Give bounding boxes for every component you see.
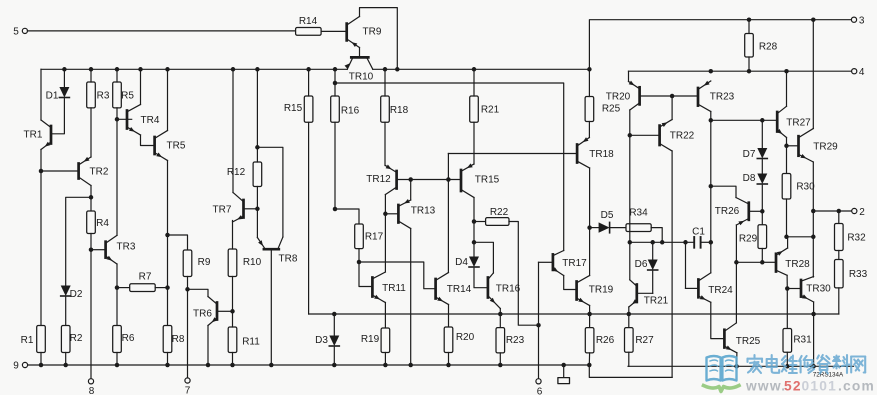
wire TR3 emitter / R6 column	[115, 264, 120, 326]
transistor TR24	[686, 273, 734, 303]
svg-text:R27: R27	[635, 335, 654, 346]
watermark url text	[745, 379, 875, 394]
transistor TR11	[372, 272, 406, 303]
svg-text:R12: R12	[227, 167, 246, 178]
resistor R30	[782, 174, 815, 237]
svg-text:R3: R3	[97, 90, 110, 101]
svg-text:TR8: TR8	[279, 254, 298, 265]
transistor TR16	[488, 273, 521, 309]
svg-text:TR29: TR29	[813, 141, 838, 152]
wire TR27 base line	[711, 118, 776, 123]
wire TR11 base	[359, 262, 371, 287]
svg-text:C1: C1	[692, 227, 705, 238]
wire TR13 emitter up	[410, 180, 412, 201]
svg-text:R31: R31	[793, 335, 812, 346]
svg-text:TR28: TR28	[785, 259, 810, 270]
wire TR12/TR15 base line	[398, 177, 460, 182]
resistor R22	[474, 207, 509, 226]
resistor R5	[113, 69, 135, 235]
svg-text:TR14: TR14	[447, 284, 472, 295]
svg-text:D2: D2	[70, 289, 83, 300]
svg-text:TR30: TR30	[806, 284, 831, 295]
transistor TR15	[461, 163, 500, 197]
svg-text:5: 5	[13, 26, 19, 37]
transistor TR21	[629, 280, 669, 307]
transistor TR26	[715, 198, 749, 226]
svg-text:TR7: TR7	[213, 205, 232, 216]
wire TR22 emitter up	[671, 96, 673, 120]
svg-text:R14: R14	[299, 16, 318, 27]
wire TR18 collector column	[587, 168, 592, 276]
transistor TR6	[193, 297, 217, 326]
svg-text:R30: R30	[796, 182, 815, 193]
svg-text:TR24: TR24	[708, 285, 733, 296]
svg-text:R16: R16	[341, 106, 360, 117]
wire TR24 base up	[685, 242, 687, 288]
wire TR20 emitter corner to bus	[628, 71, 630, 81]
svg-text:TR21: TR21	[644, 296, 669, 307]
svg-text:TR26: TR26	[715, 206, 740, 217]
resistor R12	[227, 145, 262, 237]
wire R16 to R17	[335, 209, 359, 224]
terminal 4	[852, 67, 865, 78]
svg-text:R6: R6	[122, 333, 135, 344]
svg-text:TR12: TR12	[366, 174, 391, 185]
transistor TR7	[213, 193, 258, 223]
svg-text:TR6: TR6	[193, 309, 212, 320]
wire TR16 emitter to R23	[499, 309, 501, 315]
terminal 2	[852, 207, 866, 218]
wire TR21 emitter down	[628, 307, 630, 314]
svg-text:R33: R33	[849, 269, 868, 280]
svg-text:R28: R28	[759, 42, 778, 53]
wire TR6 emitter to rail	[207, 326, 209, 366]
wire compensation node line	[630, 240, 694, 245]
diode D3	[315, 314, 339, 365]
transistor TR20	[606, 81, 640, 110]
wire TR25 emitter to rail	[736, 353, 738, 367]
svg-text:R25: R25	[602, 104, 621, 115]
wire ground rail left	[27, 363, 591, 368]
wire R15 to feedback line	[308, 122, 310, 314]
svg-text:R1: R1	[21, 335, 34, 346]
resistor R4	[87, 211, 110, 252]
diode D1	[46, 69, 70, 134]
part number caption	[813, 372, 844, 379]
svg-text:R9: R9	[198, 257, 211, 268]
wire R29 bottom link	[736, 261, 762, 263]
svg-text:R8: R8	[172, 334, 185, 345]
terminal 5	[13, 26, 27, 37]
wire TR4 base	[117, 118, 132, 120]
wire TR11 emitter to R19	[384, 303, 386, 329]
transistor TR10	[345, 57, 374, 82]
wire TR22 collector down	[671, 151, 673, 377]
resistor R21	[470, 69, 500, 164]
wire TR3 base	[91, 249, 104, 251]
wire R9 node to terminal 7	[187, 289, 189, 378]
wire TR14 emitter to R20	[448, 305, 450, 328]
svg-text:6: 6	[537, 387, 543, 395]
wire bias line from R16 to TR17 collector	[333, 81, 564, 251]
capacitor C1	[692, 227, 711, 248]
wire to R9	[168, 235, 188, 250]
resistor R3	[87, 69, 110, 157]
wire ground rail right	[628, 364, 854, 369]
wire bus right segment to terminal 4	[629, 69, 852, 74]
svg-text:TR18: TR18	[589, 149, 614, 160]
svg-text:TR1: TR1	[24, 129, 43, 140]
svg-text:www.: www.	[745, 379, 786, 394]
svg-text:4: 4	[859, 67, 865, 78]
transistor TR25	[724, 323, 760, 353]
wire TR2 collector node	[89, 186, 94, 212]
transistor TR17	[539, 251, 588, 276]
svg-text:R11: R11	[242, 337, 260, 348]
resistor R31	[783, 289, 812, 367]
svg-text:R19: R19	[361, 334, 380, 345]
svg-text:TR16: TR16	[496, 284, 521, 295]
resistor R18	[381, 69, 409, 165]
wire TR4 emitter to TR5 base	[141, 135, 154, 146]
transistor TR8	[257, 237, 297, 265]
transistor TR23	[698, 81, 735, 112]
transistor TR4	[127, 105, 160, 136]
diode D7	[743, 120, 768, 160]
resistor R34	[626, 208, 651, 232]
wire TR20 collector column	[628, 110, 633, 280]
resistor R11	[228, 311, 260, 365]
transistor TR27	[777, 106, 811, 137]
svg-text:D4: D4	[455, 257, 468, 268]
terminal 9	[13, 361, 27, 372]
wire TR1 emitter / R1 column	[39, 150, 44, 326]
wire TR7 collector to bus	[232, 69, 234, 192]
svg-text:R29: R29	[739, 234, 758, 245]
wire TR2 base	[41, 170, 78, 172]
resistor R19	[361, 328, 390, 365]
wire R12 top node	[256, 69, 258, 147]
wire rail jog	[589, 365, 672, 377]
wire TR13 base	[385, 213, 397, 215]
wire TR4 collector to bus	[140, 69, 142, 104]
diode D6	[635, 242, 658, 293]
watermark chinese text	[748, 355, 866, 374]
wire +V bus left segment	[41, 67, 347, 72]
svg-text:0101: 0101	[802, 379, 838, 394]
resistor R7	[117, 272, 168, 292]
wire TR18 base line	[448, 153, 575, 155]
svg-text:TR13: TR13	[411, 206, 436, 217]
wire TR27 collector to bus	[786, 71, 788, 106]
svg-text:TR19: TR19	[589, 285, 614, 296]
wire emitter tie line	[784, 235, 813, 240]
terminal 3	[851, 15, 864, 26]
resistor R20	[444, 327, 474, 365]
wire R34 to compensation node	[651, 228, 662, 243]
svg-text:TR4: TR4	[141, 115, 160, 126]
svg-text:TR17: TR17	[562, 258, 587, 269]
svg-text:R34: R34	[629, 208, 648, 219]
svg-text:D6: D6	[635, 259, 648, 270]
wire TR26 collector link	[711, 186, 736, 197]
transistor TR5	[155, 131, 186, 161]
wire TR5 collector to bus	[167, 69, 169, 130]
resistor R9	[183, 250, 211, 292]
svg-text:8: 8	[89, 386, 95, 395]
svg-text:TR10: TR10	[349, 72, 374, 83]
svg-text:D1: D1	[46, 91, 59, 102]
resistor R17	[355, 224, 384, 264]
wire TR26 emitter / TR25 collector column	[734, 225, 739, 323]
resistor R1	[21, 326, 46, 366]
resistor R10	[228, 221, 261, 312]
wire TR14 collector up / TR18 base feed	[447, 154, 449, 273]
diode D5	[590, 210, 626, 233]
svg-text:52: 52	[784, 379, 802, 394]
watermark book icon	[704, 356, 740, 392]
svg-text:R32: R32	[847, 233, 866, 244]
wire to D2	[66, 197, 91, 285]
wire TR17 base to terminal 6	[538, 262, 540, 379]
wire TR19 emitter to common line	[589, 306, 591, 315]
svg-text:2: 2	[859, 207, 865, 218]
resistor R28	[745, 20, 778, 71]
transistor TR2	[79, 157, 109, 186]
wire TR1 collector to bus	[40, 69, 42, 120]
svg-text:R23: R23	[506, 335, 525, 346]
wire output column	[811, 162, 816, 277]
svg-text:R22: R22	[490, 207, 509, 218]
resistor R32	[835, 211, 867, 251]
resistor R14	[296, 16, 322, 35]
wire R14 to TR9 base	[321, 30, 345, 32]
diode D2	[61, 286, 83, 326]
transistor TR30	[801, 277, 831, 303]
svg-text:TR9: TR9	[363, 27, 382, 38]
diode D8	[743, 160, 768, 225]
wire TR27 emitter node	[784, 138, 789, 174]
svg-text:TR11: TR11	[382, 283, 406, 294]
wire TR9 collector to bus	[360, 8, 398, 70]
svg-text:3: 3	[859, 15, 865, 26]
terminal 8	[88, 379, 94, 395]
svg-text:.com: .com	[838, 379, 875, 394]
svg-text:TR27: TR27	[786, 117, 811, 128]
wire common emitter line	[309, 312, 839, 317]
resistor R23	[496, 314, 525, 365]
transistor TR1	[24, 120, 51, 150]
resistor R25	[585, 69, 621, 137]
transistor TR22	[630, 120, 695, 152]
resistor R8	[163, 326, 185, 366]
svg-text:TR2: TR2	[90, 167, 109, 178]
svg-text:R7: R7	[139, 272, 152, 283]
svg-text:9: 9	[13, 361, 19, 372]
svg-text:R21: R21	[481, 105, 500, 116]
wire TR30 base	[787, 288, 799, 290]
wire TR8 collector link	[257, 147, 283, 237]
wire TR8 base to rail	[270, 251, 272, 366]
svg-text:D5: D5	[601, 210, 614, 221]
svg-text:R15: R15	[284, 103, 303, 114]
svg-text:D8: D8	[743, 173, 756, 184]
wire TR9 emitter to TR10 base	[359, 48, 361, 57]
transistor TR29	[799, 129, 839, 163]
svg-text:R26: R26	[596, 335, 615, 346]
transistor TR18	[577, 137, 614, 168]
resistor R26	[585, 314, 614, 365]
transistor TR9	[347, 17, 382, 48]
wire D4 to TR16 collector	[474, 242, 493, 273]
svg-text:R5: R5	[121, 90, 134, 101]
wire TR20/TR23 base line	[641, 94, 697, 99]
wire TR5 emitter / R8 column	[165, 161, 170, 326]
transistor TR3	[106, 235, 136, 264]
terminal 7	[185, 378, 191, 395]
transistor TR14	[436, 273, 472, 305]
svg-text:TR3: TR3	[117, 242, 136, 253]
wire TR30 emitter to rail	[813, 302, 815, 366]
wire TR26 base	[750, 210, 762, 212]
wire TR29 base	[787, 145, 798, 147]
resistor R33	[835, 251, 868, 315]
transistor TR19	[577, 276, 614, 306]
wire bus mid segment	[373, 67, 592, 72]
resistor R15	[284, 69, 313, 122]
wire to terminal 3	[589, 17, 851, 69]
transistor TR13	[398, 199, 435, 229]
resistor R6	[113, 326, 135, 366]
wire TR15 collector column	[472, 198, 477, 257]
terminal 6	[536, 379, 543, 395]
resistor R16	[331, 69, 360, 211]
wire R22 to inverting node	[509, 222, 541, 328]
jumper link symbol	[558, 365, 570, 384]
wire TR29 collector to terminal 3 line	[812, 20, 814, 129]
wire TR23 collector column	[709, 112, 714, 273]
wire TR6 collector	[188, 289, 209, 296]
transistor TR12	[366, 165, 396, 195]
wire R4 node to terminal 8	[90, 250, 92, 379]
wire terminal 2 line	[813, 209, 851, 214]
wire TR28 emitter up	[787, 237, 789, 248]
svg-text:R18: R18	[390, 105, 409, 116]
resistor R27	[625, 314, 655, 366]
svg-text:R20: R20	[456, 332, 475, 343]
svg-text:TR23: TR23	[710, 92, 735, 103]
svg-text:R4: R4	[96, 218, 109, 229]
svg-text:R17: R17	[365, 232, 384, 243]
svg-text:7: 7	[185, 386, 191, 395]
wire TR6 base	[218, 309, 234, 314]
svg-text:R2: R2	[70, 333, 83, 344]
resistor R29	[739, 225, 767, 265]
wire terminal 5 to R14	[27, 30, 295, 32]
svg-text:R10: R10	[243, 257, 262, 268]
wire TR28 collector to TR30 base node	[785, 275, 790, 290]
svg-text:D3: D3	[315, 335, 328, 346]
resistor R2	[61, 326, 82, 366]
wire TR13 collector to rail	[410, 229, 412, 366]
wire TR12 collector / TR13 base column	[383, 195, 388, 273]
wire R17 to TR14 base	[359, 262, 434, 289]
svg-text:TR25: TR25	[736, 336, 761, 347]
transistor TR28	[762, 248, 810, 275]
svg-text:TR20: TR20	[606, 92, 631, 103]
wire TR17 emitter to TR19 base	[564, 276, 576, 290]
wire TR24 emitter to TR25 base	[711, 302, 723, 338]
svg-text:TR22: TR22	[670, 131, 695, 142]
svg-text:TR15: TR15	[475, 174, 500, 185]
svg-text:TR5: TR5	[167, 141, 186, 152]
svg-text:D7: D7	[743, 149, 756, 160]
diode D4	[455, 257, 486, 288]
